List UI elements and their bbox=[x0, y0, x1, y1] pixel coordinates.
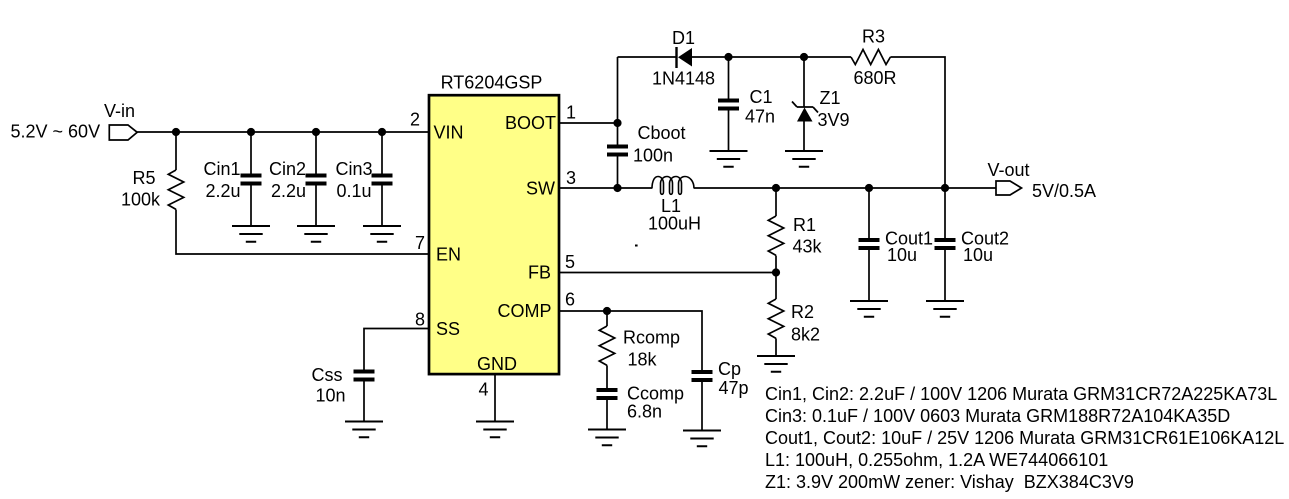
node SW/Cboot junction bbox=[613, 184, 621, 192]
svg-text:Css: Css bbox=[312, 365, 343, 385]
ground IC GND pin bbox=[476, 422, 514, 438]
wire R2 bottom lead bbox=[775, 338, 777, 356]
svg-text:6.8n: 6.8n bbox=[627, 402, 662, 422]
terminal V-in bbox=[109, 125, 137, 140]
wire SW pin to L1 bbox=[558, 187, 652, 189]
svg-text:10u: 10u bbox=[963, 245, 993, 265]
wire Ccomp bottom lead bbox=[606, 400, 608, 430]
wire Z1 top lead bbox=[803, 57, 805, 107]
wire Cboot top lead bbox=[617, 123, 619, 145]
op-amp U1 RT6204GSP body bbox=[429, 95, 559, 374]
ground Css bbox=[345, 422, 383, 438]
inductor L1 bbox=[652, 177, 694, 195]
svg-text:RT6204GSP: RT6204GSP bbox=[441, 73, 543, 93]
wire Cout1 bottom lead bbox=[868, 250, 870, 301]
svg-text:5: 5 bbox=[565, 252, 575, 272]
wire Cin3 top lead bbox=[381, 132, 383, 174]
svg-text:Ccomp: Ccomp bbox=[627, 384, 684, 404]
svg-text:VIN: VIN bbox=[434, 123, 464, 143]
svg-text:10u: 10u bbox=[887, 245, 917, 265]
wire R5 top lead bbox=[175, 132, 177, 170]
node VIN/Cin1 junction bbox=[247, 128, 255, 136]
svg-text:1: 1 bbox=[566, 103, 576, 123]
svg-text:1N4148: 1N4148 bbox=[652, 69, 715, 89]
svg-text:2.2u: 2.2u bbox=[206, 181, 241, 201]
svg-text:Cboot: Cboot bbox=[638, 123, 686, 143]
ground Cp bbox=[683, 431, 721, 447]
svg-text:Cp: Cp bbox=[718, 359, 741, 379]
svg-text:L1: 100uH, 0.255ohm, 1.2A WE74: L1: 100uH, 0.255ohm, 1.2A WE744066101 bbox=[765, 450, 1108, 470]
wire R1 top lead bbox=[775, 188, 777, 216]
wire Cin2 top lead bbox=[315, 132, 317, 174]
node top rail/Z1 junction bbox=[800, 53, 808, 61]
svg-text:Z1: 3.9V 200mW zener: Vishay: Z1: 3.9V 200mW zener: Vishay BZX384C3V9 bbox=[765, 472, 1134, 492]
resistor R5 bbox=[168, 170, 183, 209]
capacitor Cin3 bbox=[372, 174, 393, 186]
ground Cin3 bbox=[363, 226, 401, 242]
svg-text:6: 6 bbox=[565, 290, 575, 310]
capacitor Cout2 bbox=[935, 238, 956, 250]
ground Cout1 bbox=[850, 301, 888, 317]
svg-text:R1: R1 bbox=[793, 215, 816, 235]
svg-text:R3: R3 bbox=[862, 27, 885, 47]
resistor Rcomp bbox=[599, 326, 614, 365]
wire R5 bottom to EN bbox=[176, 210, 429, 255]
resistor R1 bbox=[768, 216, 783, 255]
svg-text:5.2V ~ 60V: 5.2V ~ 60V bbox=[11, 122, 101, 142]
wire Rcomp top lead bbox=[606, 311, 608, 326]
ground R2 bbox=[757, 356, 795, 372]
wire SW rail to V-out bbox=[694, 187, 996, 189]
svg-text:Cin1, Cin2: 2.2uF / 100V 1206: Cin1, Cin2: 2.2uF / 100V 1206 Murata GRM… bbox=[765, 384, 1277, 404]
svg-text:2: 2 bbox=[410, 110, 420, 130]
capacitor Cin2 bbox=[306, 174, 327, 186]
node COMP/Rcomp junction bbox=[603, 307, 611, 315]
wire Cout2 bottom lead bbox=[944, 250, 946, 301]
svg-text:8: 8 bbox=[415, 310, 425, 330]
capacitor Ccomp bbox=[597, 388, 618, 400]
capacitor C1 bbox=[718, 99, 739, 111]
wire GND pin lead bbox=[494, 374, 496, 422]
svg-text:R5: R5 bbox=[133, 168, 156, 188]
svg-text:SS: SS bbox=[436, 319, 460, 339]
svg-text:D1: D1 bbox=[672, 28, 695, 48]
ground C1 bbox=[710, 151, 748, 167]
wire R1 bottom lead bbox=[775, 256, 777, 273]
svg-text:Cin3: Cin3 bbox=[336, 159, 373, 179]
wire VIN rail bbox=[137, 131, 428, 133]
wire Cin2 bottom lead bbox=[315, 186, 317, 227]
wire boot rail vertical bbox=[617, 57, 619, 123]
ground Z1 bbox=[785, 151, 823, 167]
terminal V-out bbox=[996, 181, 1022, 195]
resistor R3 bbox=[851, 50, 890, 65]
svg-text:Cin1: Cin1 bbox=[204, 159, 241, 179]
svg-text:3: 3 bbox=[566, 168, 576, 188]
svg-text:10n: 10n bbox=[316, 386, 346, 406]
node VIN/Cin2 junction bbox=[312, 128, 320, 136]
svg-text:3V9: 3V9 bbox=[818, 110, 850, 130]
capacitor Cin1 bbox=[241, 174, 262, 186]
capacitor Cboot bbox=[607, 145, 628, 157]
wire R2 top lead bbox=[775, 273, 777, 300]
svg-text:43k: 43k bbox=[793, 237, 823, 257]
wire top rail middle bbox=[692, 56, 851, 58]
svg-text:COMP: COMP bbox=[498, 301, 552, 321]
svg-text:Cin2: Cin2 bbox=[269, 159, 306, 179]
svg-text:100uH: 100uH bbox=[648, 214, 701, 234]
wire Cboot bottom lead bbox=[617, 157, 619, 189]
svg-text:EN: EN bbox=[436, 245, 461, 265]
diode D1 bbox=[677, 47, 693, 68]
node BOOT/Cboot junction bbox=[613, 119, 621, 127]
wire Css bottom lead bbox=[363, 382, 365, 422]
node top rail/C1 junction bbox=[724, 53, 732, 61]
wire Cin1 top lead bbox=[250, 132, 252, 174]
svg-text:Z1: Z1 bbox=[820, 88, 841, 108]
wire Cin3 bottom lead bbox=[381, 186, 383, 227]
ground Cin2 bbox=[297, 226, 335, 242]
svg-text:680R: 680R bbox=[854, 68, 897, 88]
svg-text:FB: FB bbox=[528, 263, 551, 283]
capacitor Cp bbox=[692, 370, 713, 382]
svg-text:V-in: V-in bbox=[104, 101, 135, 121]
wire FB pin to R1/R2 bbox=[558, 272, 776, 274]
svg-text:Cin3: 0.1uF / 100V 0603 Murata: Cin3: 0.1uF / 100V 0603 Murata GRM188R72… bbox=[765, 406, 1230, 426]
svg-text:Rcomp: Rcomp bbox=[623, 328, 680, 348]
node VIN/R5 junction bbox=[172, 128, 180, 136]
svg-text:4: 4 bbox=[478, 380, 488, 400]
wire top rail left bbox=[618, 56, 676, 58]
ground Cin1 bbox=[232, 226, 270, 242]
zener diode Z1 bbox=[792, 102, 818, 122]
wire Cout2 top lead bbox=[944, 188, 946, 238]
wire BOOT pin to Cboot bbox=[558, 122, 618, 124]
svg-text:R2: R2 bbox=[791, 302, 814, 322]
wire top rail right and down bbox=[890, 57, 945, 188]
wire Z1 bottom lead bbox=[803, 122, 805, 152]
resistor R2 bbox=[768, 299, 783, 338]
svg-text:BOOT: BOOT bbox=[505, 113, 556, 133]
node VIN/Cin3 junction bbox=[378, 128, 386, 136]
node SW/Cout1 junction bbox=[865, 184, 873, 192]
svg-text:0.1u: 0.1u bbox=[337, 181, 372, 201]
wire Cin1 bottom lead bbox=[250, 186, 252, 227]
svg-text:100n: 100n bbox=[633, 146, 673, 166]
svg-text:5V/0.5A: 5V/0.5A bbox=[1032, 181, 1096, 201]
svg-text:2.2u: 2.2u bbox=[271, 181, 306, 201]
node SW/R1 junction bbox=[772, 184, 780, 192]
wire Cp bottom lead bbox=[701, 382, 703, 431]
wire C1 top lead bbox=[728, 57, 730, 99]
svg-text:8k2: 8k2 bbox=[791, 325, 820, 345]
svg-text:GND: GND bbox=[477, 354, 517, 374]
svg-text:V-out: V-out bbox=[988, 160, 1030, 180]
svg-text:SW: SW bbox=[526, 179, 555, 199]
ground Cout2 bbox=[926, 301, 964, 317]
svg-text:100k: 100k bbox=[121, 190, 161, 210]
wire C1 bottom lead bbox=[728, 111, 730, 152]
wire SS pin to Css bbox=[364, 329, 429, 370]
svg-text:47p: 47p bbox=[719, 378, 749, 398]
capacitor Cout1 bbox=[859, 238, 880, 250]
node SW/Cout2 junction bbox=[941, 184, 949, 192]
wire Rcomp to Ccomp bbox=[606, 365, 608, 388]
svg-text:18k: 18k bbox=[628, 350, 658, 370]
svg-text:Cout1, Cout2: 10uF / 25V 1206: Cout1, Cout2: 10uF / 25V 1206 Murata GRM… bbox=[765, 428, 1284, 448]
ground Ccomp bbox=[588, 430, 626, 446]
capacitor Css bbox=[354, 370, 375, 382]
stray mark bbox=[635, 245, 638, 247]
svg-text:47n: 47n bbox=[745, 107, 775, 127]
wire COMP pin to Cp bbox=[558, 311, 702, 370]
node FB junction bbox=[772, 268, 780, 276]
svg-text:C1: C1 bbox=[750, 87, 773, 107]
svg-text:7: 7 bbox=[415, 233, 425, 253]
wire Cout1 top lead bbox=[868, 188, 870, 238]
